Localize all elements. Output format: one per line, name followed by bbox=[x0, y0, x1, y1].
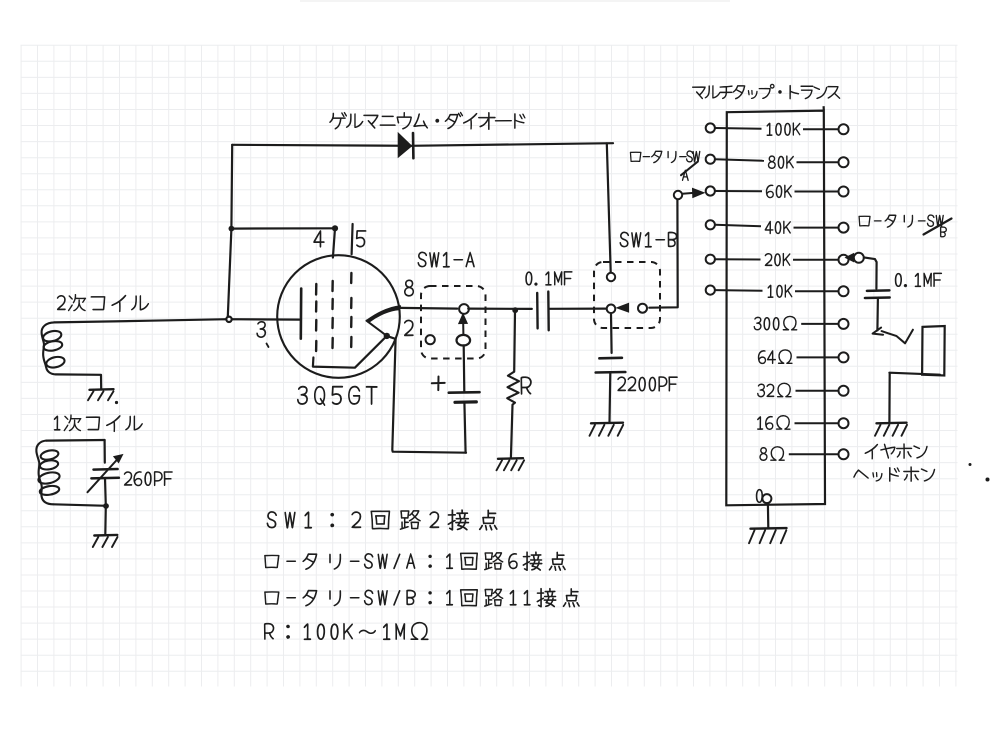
wire: earphone return bbox=[889, 373, 940, 423]
rotary SW/A wiper arrow bbox=[693, 188, 705, 197]
wire: L1 top to variable cap bbox=[46, 439, 104, 442]
resistor R bottom lead bbox=[511, 405, 513, 458]
switch SW1-B moving contact bbox=[638, 304, 647, 313]
label 2200PF bbox=[618, 377, 678, 392]
coil L1 primary (1次コイル) bbox=[36, 441, 53, 505]
note ロータリーSW/A bbox=[264, 552, 565, 571]
wire: vc top lead bbox=[103, 440, 105, 463]
label A bbox=[682, 170, 688, 181]
transformer tap 64Ω bbox=[758, 350, 792, 364]
ground (C3 2200PF) bbox=[591, 422, 623, 425]
label マルチタップ・トランス bbox=[692, 84, 840, 99]
transformer tap 100K bbox=[706, 123, 715, 132]
switch SW1-A wiper stem bbox=[462, 324, 464, 335]
diode D1 germanium (anode triangle) bbox=[398, 133, 411, 157]
capacitor C4 bottom plate bbox=[865, 296, 890, 299]
switch SW1-B dashed enclosure bbox=[594, 262, 660, 328]
label B bbox=[940, 227, 946, 238]
note R: 100K~1MΩ bbox=[264, 622, 428, 640]
variable capacitor arrow shaft bbox=[88, 458, 120, 493]
speck bbox=[115, 401, 118, 404]
switch SW1-B wiper arrow bbox=[617, 303, 629, 312]
transformer tap 80K bbox=[706, 155, 715, 164]
variable capacitor C-var bottom plate bbox=[91, 477, 119, 480]
wire: left vertical from top loop to node A bbox=[228, 145, 233, 319]
wire: SW1-B to rotary A wiper bbox=[649, 200, 677, 308]
ground (primary tank) bbox=[94, 534, 117, 537]
label イヤホン bbox=[865, 444, 928, 460]
wire: SW/B wiper to C4 bbox=[864, 257, 877, 288]
wire: SW1-B pole down to C3 bbox=[610, 314, 613, 353]
label SW1-B bbox=[620, 232, 677, 247]
speck bbox=[969, 463, 972, 466]
label pin 4 bbox=[314, 230, 325, 247]
node: junction at pin4 tie bbox=[229, 226, 235, 232]
switch SW1-B pole on line bbox=[607, 305, 616, 314]
switch SW1-A wiper pole bbox=[457, 335, 471, 346]
tube V1 pin 4 lead bbox=[333, 228, 335, 257]
transformer tap 16Ω bbox=[757, 415, 790, 429]
switch SW1-B top contact bbox=[607, 273, 615, 281]
ground (transformer 0) bbox=[751, 527, 787, 530]
coil L2 secondary (2次コイル) bbox=[42, 322, 56, 374]
transformer tap 8Ω bbox=[760, 446, 785, 460]
transformer tap 10K bbox=[706, 286, 715, 295]
label R bbox=[521, 377, 532, 395]
label ロータリ-SW (A) line1 bbox=[630, 151, 700, 163]
label ロータリ-SW (B) line1 bbox=[859, 215, 944, 228]
switch SW1-A unused contact bbox=[426, 335, 435, 344]
variable capacitor arrow head bbox=[114, 455, 123, 463]
wire: L1 bottom to junction bbox=[54, 504, 108, 506]
battery B1 plus sign bbox=[432, 377, 445, 391]
tube V1 filament lower arm bbox=[367, 321, 387, 336]
label pin 8 bbox=[404, 280, 414, 297]
capacitor C4 bottom lead bbox=[876, 298, 879, 330]
label 2次コイル bbox=[57, 294, 149, 312]
label 1次コイル bbox=[54, 415, 143, 432]
rotary SW/B wiper arrow bbox=[846, 254, 854, 262]
earphone jack body bbox=[922, 326, 945, 376]
wire: C1 to SW1-B pole bbox=[549, 308, 606, 310]
wire: pin 2 down and across to battery minus bbox=[392, 339, 466, 453]
wire: battery minus lead bbox=[464, 402, 465, 452]
variable capacitor C-var top plate bbox=[94, 468, 118, 471]
wire: right vertical from diode to SW1-B top contact bbox=[607, 143, 611, 272]
label germanium diode ゲルマニウム・ダイオード bbox=[330, 112, 526, 130]
label 0.1MF (C1) bbox=[526, 271, 573, 285]
plug arrow head bbox=[873, 328, 884, 335]
wire: horizontal to tube pin 4 bbox=[231, 227, 335, 230]
tube V1 cathode bottom hook bbox=[313, 336, 387, 368]
switch SW1-A wiper arrow bbox=[459, 314, 468, 324]
transformer T1 multi-tap body bbox=[726, 106, 825, 505]
transformer tap 20K bbox=[706, 255, 715, 264]
label slash /A bbox=[681, 162, 698, 175]
transformer tap 40K bbox=[706, 220, 715, 229]
capacitor C4 top plate bbox=[867, 289, 890, 292]
tube V1 3Q5GT envelope bbox=[277, 255, 400, 378]
wire: SW1-A contact to C1 bbox=[468, 308, 532, 310]
wire: coil L2 bottom to ground bbox=[56, 374, 101, 388]
rotary switch SW/A wiper pole bbox=[674, 191, 682, 199]
rotary SW/A wiper arm bbox=[682, 192, 693, 195]
battery B1 negative plate bbox=[455, 400, 476, 404]
tube V1 pin 5 lead bbox=[352, 224, 353, 254]
label slash /B bbox=[924, 219, 952, 235]
transformer tap 300Ω bbox=[754, 316, 797, 330]
label 0.1MF (C4) bbox=[895, 273, 942, 287]
tube V1 pin 2 exit bbox=[387, 336, 396, 339]
transformer tap 32Ω bbox=[757, 383, 791, 397]
node A: coil/grid-leak junction bbox=[226, 317, 231, 322]
note SW1: 2回路2接点 bbox=[267, 510, 497, 531]
label pin 5 bbox=[356, 230, 366, 247]
node: pin4 top junction bbox=[332, 225, 338, 231]
ground (resistor R) bbox=[498, 457, 523, 460]
resistor R zigzag bbox=[507, 372, 519, 405]
switch SW1-A top contact bbox=[459, 304, 469, 314]
wire: SW1-A pole to battery plus bbox=[463, 345, 466, 392]
tick after 3 bbox=[267, 344, 269, 348]
diode D1 cathode bar bbox=[412, 133, 415, 158]
tube V1 internal grids (dashed) bbox=[316, 273, 351, 351]
label SW1-A bbox=[418, 252, 475, 267]
battery B1 positive plate bbox=[449, 391, 480, 394]
rotary SW/B wiper pole bbox=[854, 253, 864, 263]
note ロータリーSW/B bbox=[264, 588, 579, 607]
tube V1 filament (thick beak to pin 8) bbox=[367, 306, 401, 322]
plug check mark bbox=[882, 330, 913, 344]
label ヘッドホン bbox=[854, 467, 935, 482]
ground (earphone) bbox=[877, 422, 907, 425]
switch SW1-A dashed enclosure bbox=[421, 286, 486, 359]
capacitor C1 left plate bbox=[536, 293, 539, 329]
capacitor C3 top plate bbox=[599, 356, 622, 359]
label pin 3 bbox=[257, 321, 266, 337]
label 260PF bbox=[124, 471, 172, 486]
node: R junction bbox=[512, 307, 518, 313]
capacitor C3 bottom lead bbox=[608, 373, 611, 423]
resistor R top lead bbox=[513, 312, 516, 372]
tube V1 grid-cap plate line (pin 3) bbox=[299, 289, 302, 339]
wire: vc bottom lead bbox=[104, 478, 107, 535]
wire: top loop from node A to diode to SW1-B feed bbox=[232, 143, 613, 146]
capacitor C1 right plate bbox=[547, 292, 550, 331]
node: L1/vc junction bbox=[103, 503, 109, 509]
label tube type 3Q5GT bbox=[297, 386, 377, 406]
capacitor C3 bottom plate bbox=[596, 371, 626, 374]
wire: tube pin 8 to SW1-A contact bbox=[400, 307, 457, 310]
speck bbox=[986, 478, 990, 482]
label pin 2 bbox=[404, 320, 413, 336]
ground (secondary coil) bbox=[90, 388, 114, 391]
transformer tap 60K bbox=[706, 186, 715, 195]
wire: transformer 0 to ground bbox=[767, 504, 770, 528]
node: filament/pin2 junction bbox=[384, 333, 390, 339]
transformer 0 tap bbox=[756, 489, 763, 503]
wire: secondary coil to tube pin 3 bbox=[54, 319, 301, 322]
